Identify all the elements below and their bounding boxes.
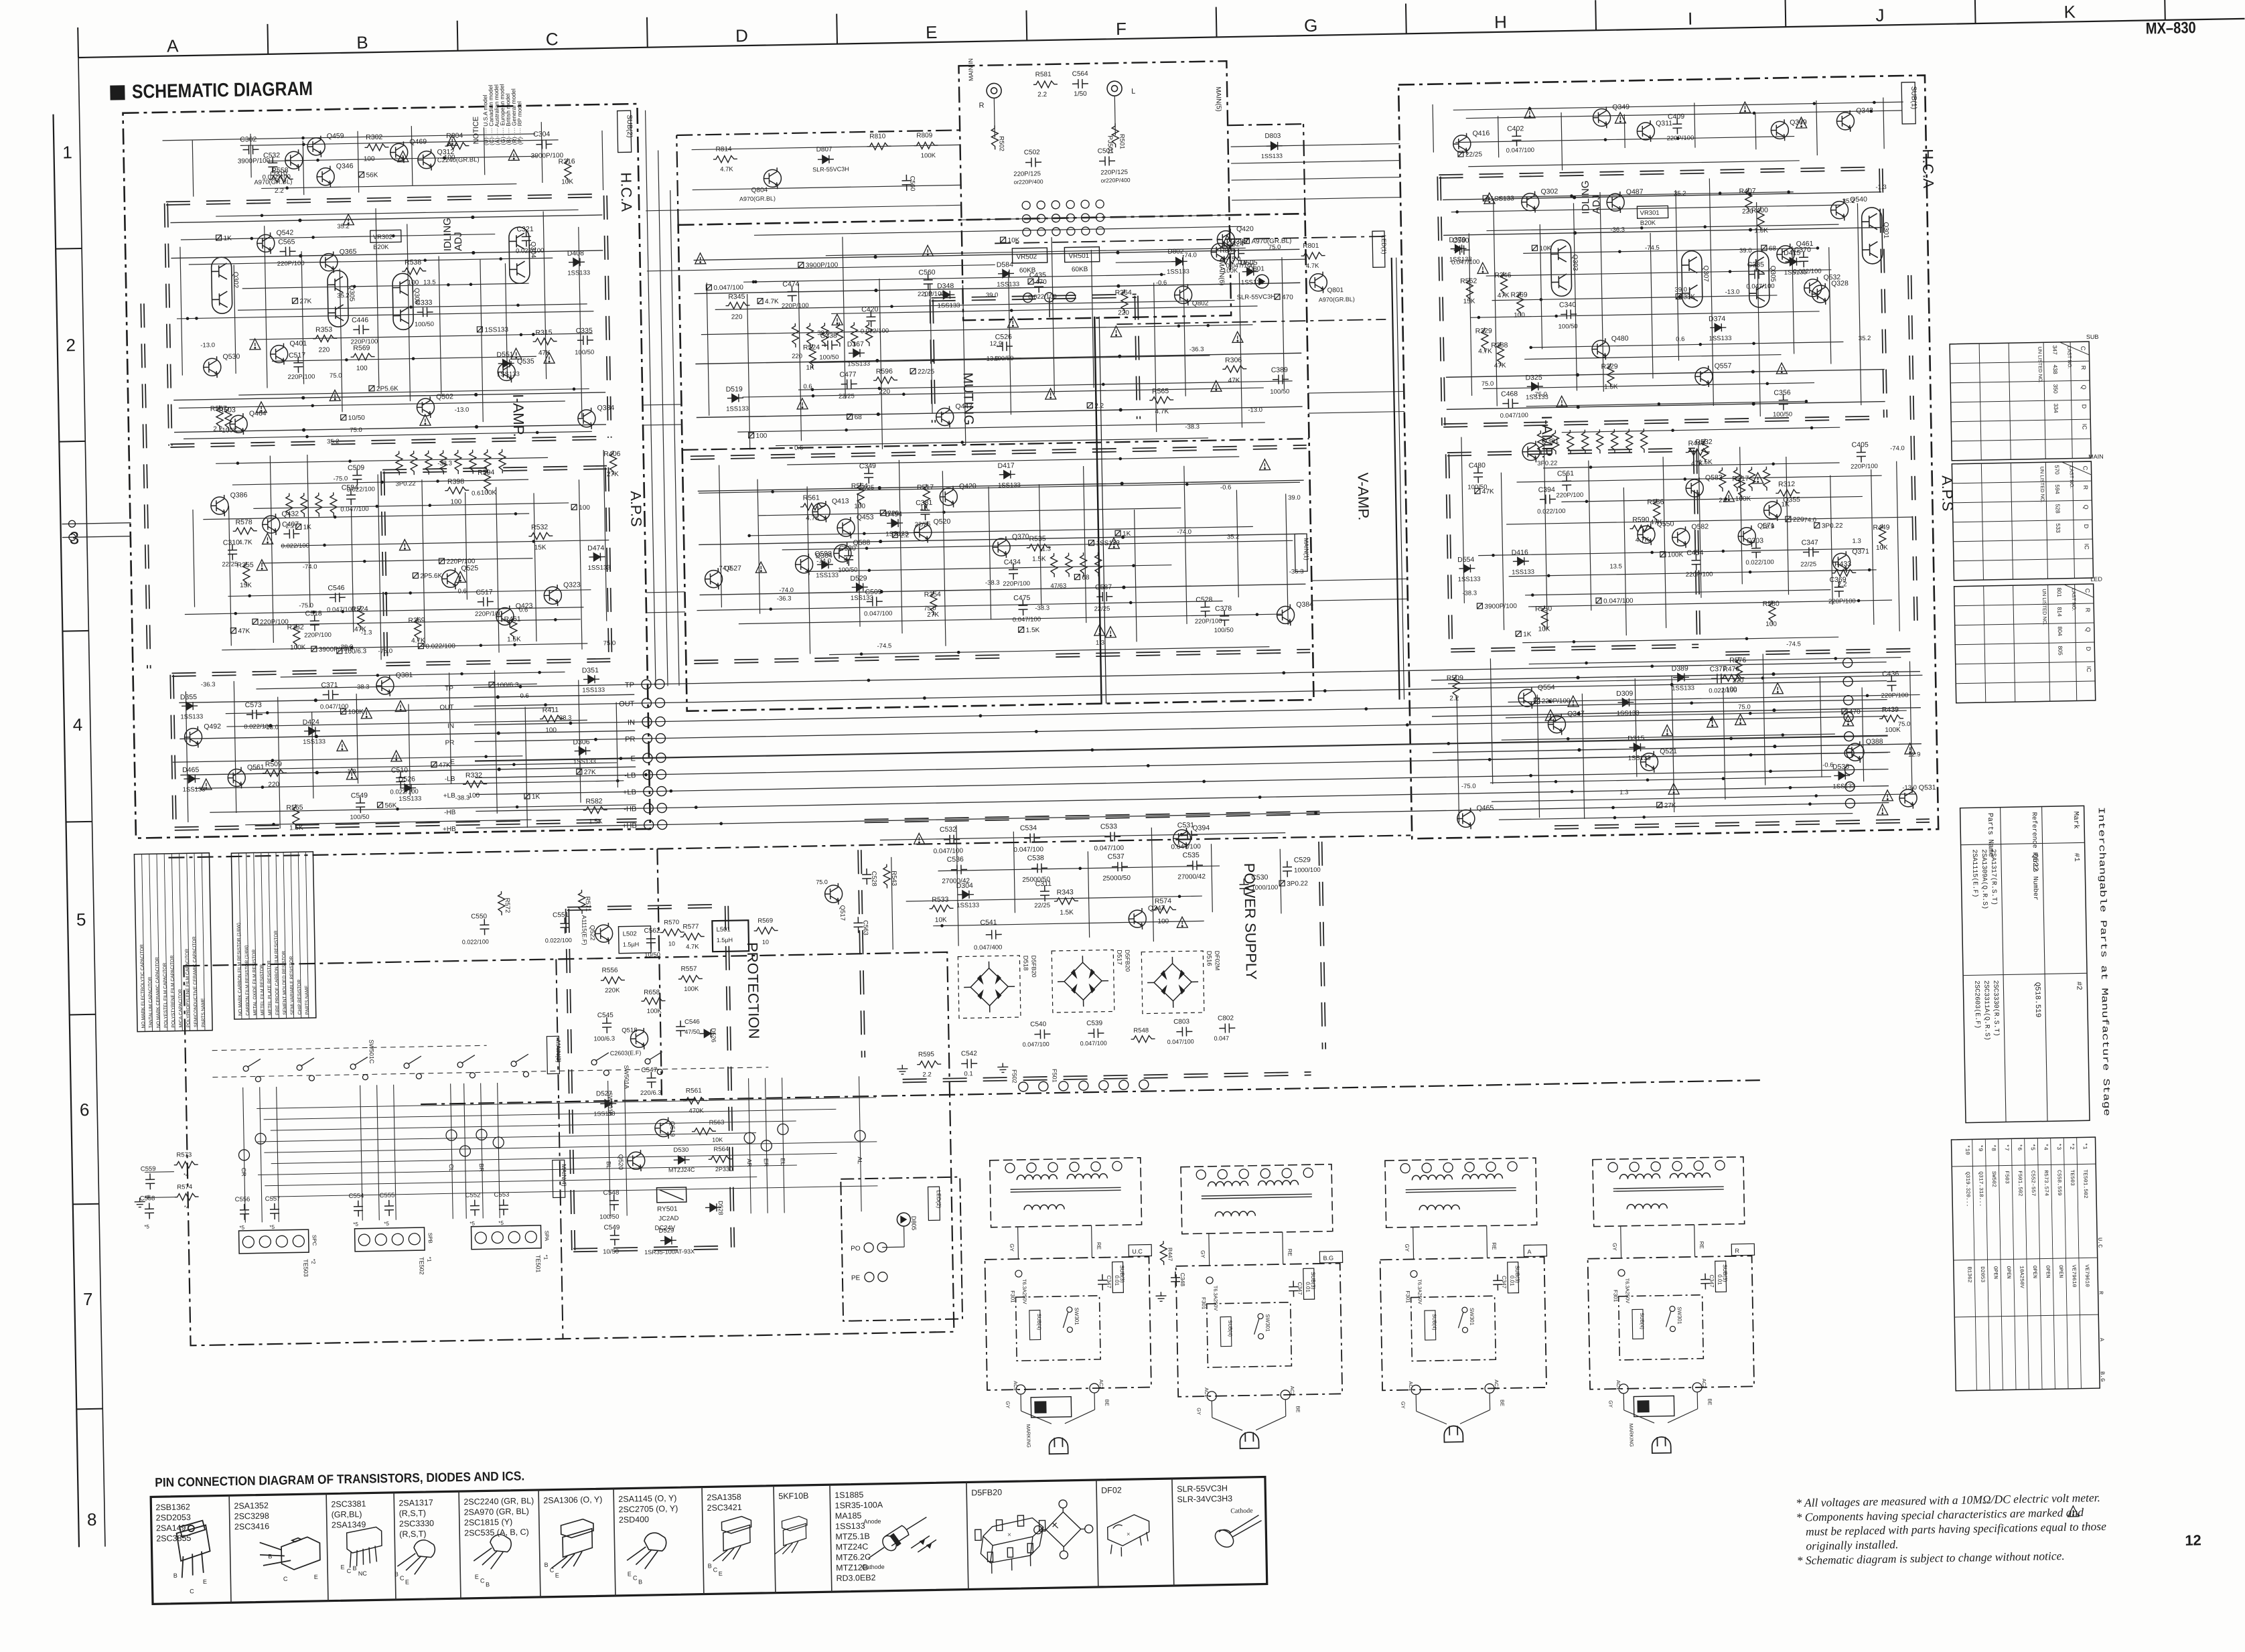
svg-text:220P/125: 220P/125 <box>1013 170 1041 178</box>
capacitor Q718 <box>1672 118 1682 134</box>
wire table diag <box>2059 342 2089 356</box>
wire <box>1492 794 1916 802</box>
wire <box>843 237 845 399</box>
wire <box>76 1408 102 1410</box>
wire rail <box>171 250 603 258</box>
wire shield-bus <box>932 294 1137 298</box>
svg-text:F301: F301 <box>1612 1290 1618 1302</box>
node connector pin <box>1022 214 1030 222</box>
transistor Q801 <box>1309 272 1327 293</box>
svg-text:-0.6: -0.6 <box>1156 279 1167 287</box>
capacitor R687 <box>323 690 339 699</box>
capacitor R860 <box>997 342 1013 351</box>
wire <box>1311 579 1407 581</box>
wire block SUB(2) border <box>123 104 650 838</box>
wire table grid <box>1955 623 2094 625</box>
wire <box>186 691 188 822</box>
wire <box>356 694 358 783</box>
node warning-mark <box>1545 710 1556 721</box>
transformer T-R core <box>1613 1187 1724 1189</box>
svg-text:220/6.3: 220/6.3 <box>640 1090 662 1098</box>
svg-text:438: 438 <box>2052 364 2059 374</box>
svg-text:*5: *5 <box>2029 1144 2036 1150</box>
svg-text:C528: C528 <box>870 871 877 887</box>
capacitor C553 <box>499 1199 508 1215</box>
svg-text:SPA: SPA <box>544 1231 550 1242</box>
connector TE502 <box>355 1227 425 1252</box>
svg-text:Q480: Q480 <box>1611 335 1629 343</box>
node bus pin +LB right <box>1844 765 1854 775</box>
wire <box>579 227 582 418</box>
svg-text:10K: 10K <box>1539 245 1551 252</box>
svg-text:2SC3416: 2SC3416 <box>234 1521 269 1531</box>
wire <box>216 457 548 463</box>
switch SW301 A <box>1462 1307 1467 1312</box>
wire legend grid <box>142 854 145 1031</box>
wire rail <box>699 534 1305 544</box>
svg-text:100: 100 <box>1765 621 1777 628</box>
wire rail <box>1443 192 1881 200</box>
svg-text:R550: R550 <box>1535 605 1552 613</box>
svg-text:-74.0: -74.0 <box>1890 445 1905 452</box>
svg-text:25000/50: 25000/50 <box>1102 875 1131 883</box>
svg-text:Q571: Q571 <box>1757 522 1775 530</box>
node warning-mark <box>544 352 555 363</box>
svg-text:1.5K: 1.5K <box>1032 555 1046 562</box>
svg-text:GY: GY <box>1005 1401 1011 1408</box>
svg-text:-1.3: -1.3 <box>1875 183 1887 191</box>
svg-text:+LB: +LB <box>623 788 636 796</box>
svg-text:27K: 27K <box>927 611 939 619</box>
svg-text:C532: C532 <box>940 826 956 834</box>
resistor C739 <box>1757 207 1765 231</box>
wire <box>481 1083 484 1218</box>
wire <box>1672 676 1674 812</box>
transformer T-B.G core <box>1202 1194 1312 1196</box>
svg-text:*4: *4 <box>2042 1143 2049 1150</box>
node bus junction <box>544 703 547 706</box>
svg-text:AC2: AC2 <box>1494 1379 1500 1390</box>
svg-text:35.2: 35.2 <box>337 292 350 299</box>
wire table grid <box>2045 462 2047 579</box>
svg-text:2.2: 2.2 <box>922 1071 931 1078</box>
wire legend grid <box>202 853 205 1031</box>
capacitor C536 <box>951 865 967 874</box>
wire shield-bus <box>566 909 572 1250</box>
wire <box>1184 466 1187 624</box>
transistor Q300 <box>795 554 813 575</box>
svg-text:0.022/100: 0.022/100 <box>1709 687 1737 695</box>
wire <box>1239 273 1242 428</box>
transistor R891 <box>834 542 852 564</box>
svg-text:47K: 47K <box>1650 519 1662 526</box>
node warning-mark <box>262 533 273 544</box>
capacitor R603 <box>268 157 277 173</box>
resistor R302 <box>364 144 388 151</box>
svg-text:C: C <box>2082 466 2088 471</box>
node warning-mark <box>508 149 519 160</box>
svg-text:Q522: Q522 <box>2031 854 2039 872</box>
svg-text:4.7K: 4.7K <box>1306 262 1319 270</box>
wire table grid <box>1981 463 1983 580</box>
switch SW501A <box>404 1063 409 1068</box>
svg-text:R556: R556 <box>602 967 619 974</box>
node connector pin <box>1023 293 1033 302</box>
svg-text:2SC2603(E.F): 2SC2603(E.F) <box>1972 980 1981 1029</box>
svg-text:0.022/100: 0.022/100 <box>281 542 309 550</box>
node T-R pin <box>1651 1162 1660 1171</box>
wire shielded pair right <box>1396 258 1404 700</box>
svg-text:D: D <box>2081 404 2088 409</box>
svg-text:Q386: Q386 <box>230 491 248 499</box>
svg-text:TP: TP <box>625 681 634 689</box>
transistor C643 <box>578 408 596 429</box>
transistor R723 <box>1777 244 1795 265</box>
svg-text:0.022/100: 0.022/100 <box>425 643 455 651</box>
svg-text:804: 804 <box>2057 626 2063 636</box>
wire <box>906 896 1202 901</box>
svg-text:-13.0: -13.0 <box>1725 289 1740 296</box>
wire <box>1286 494 1289 625</box>
svg-text:T6.3A250V: T6.3A250V <box>1212 1286 1219 1311</box>
wire <box>496 487 499 652</box>
capacitor C347 U.C <box>1098 1274 1107 1290</box>
node switch matrix pin <box>778 1124 788 1134</box>
resistor R805 <box>1218 257 1242 265</box>
svg-text:Q: Q <box>2082 505 2089 510</box>
wire <box>829 647 1269 655</box>
capacitor C530 <box>1239 879 1248 895</box>
svg-text:VR501: VR501 <box>1068 252 1089 260</box>
node interchangeable parts table <box>1960 806 2090 1122</box>
svg-text:2.2: 2.2 <box>275 187 285 195</box>
svg-text:R543: R543 <box>890 871 897 886</box>
capacitor C623 <box>293 357 303 373</box>
resistor R581 <box>1033 81 1058 88</box>
wire <box>1020 1394 1021 1411</box>
capacitor C557 <box>270 1203 279 1219</box>
resistor R809 <box>914 142 938 149</box>
wire <box>1231 161 1400 164</box>
wire <box>1211 1401 1212 1418</box>
svg-text:NOTICE: NOTICE <box>472 117 481 145</box>
capacitor R826 <box>1273 374 1289 384</box>
node connector pin F50x <box>1019 1082 1028 1092</box>
wire table diag <box>2064 584 2094 598</box>
wire <box>743 275 1165 282</box>
resistor D768 <box>1653 499 1660 523</box>
svg-text:TE501.502: TE501.502 <box>2082 1169 2088 1199</box>
svg-text:D: D <box>2083 524 2090 529</box>
svg-text:Q346: Q346 <box>336 162 354 170</box>
svg-text:22/25: 22/25 <box>918 368 935 376</box>
wire <box>831 306 1257 313</box>
wire <box>195 781 624 789</box>
wire <box>766 1078 768 1213</box>
wire block SUB(1) border <box>1398 75 1938 838</box>
svg-text:BL: BL <box>605 1161 612 1169</box>
svg-text:C584: C584 <box>342 483 358 492</box>
node R862 <box>798 262 804 267</box>
svg-text:1SS133: 1SS133 <box>998 481 1021 490</box>
wire <box>192 141 194 197</box>
wire <box>1017 1227 1019 1259</box>
wire table grid <box>1951 419 2090 422</box>
svg-text:CHIP RESISTOR: CHIP RESISTOR <box>297 980 303 1015</box>
svg-text:220: 220 <box>319 346 330 354</box>
node switch matrix pin <box>761 1140 772 1151</box>
svg-text:1SS133: 1SS133 <box>183 786 206 794</box>
svg-text:MARKING: MARKING <box>1025 1424 1032 1448</box>
wire rail <box>695 353 1301 364</box>
capacitor R813 <box>1711 674 1727 683</box>
resistor Q612 <box>351 354 375 361</box>
svg-text:220P/100: 220P/100 <box>1003 580 1030 588</box>
capacitor C347 B.G <box>1289 1281 1298 1297</box>
wire <box>1830 475 1832 605</box>
svg-text:100/50: 100/50 <box>599 1213 619 1221</box>
node bus junction <box>1323 689 1327 692</box>
svg-text:100K: 100K <box>481 489 497 496</box>
svg-text:Q423: Q423 <box>516 602 533 610</box>
resistor R360 <box>1051 553 1058 577</box>
svg-text:SW501C: SW501C <box>368 1039 375 1064</box>
wire <box>1501 473 1504 630</box>
svg-text:C539: C539 <box>1086 1020 1103 1027</box>
transistor Q708 <box>376 675 394 696</box>
svg-text:C: C <box>2080 346 2086 351</box>
svg-text:C335: C335 <box>576 327 593 335</box>
node R SUB(4) tag <box>1632 1309 1644 1339</box>
svg-text:R567: R567 <box>210 404 227 412</box>
node SUB(1) tag <box>1901 82 1915 124</box>
svg-text:SW301: SW301 <box>1676 1306 1682 1325</box>
svg-text:IC: IC <box>2086 666 2092 673</box>
svg-text:Q388: Q388 <box>1866 737 1883 745</box>
svg-text:F: F <box>1116 19 1127 39</box>
svg-text:MAIN(1): MAIN(1) <box>1303 538 1310 560</box>
resistor Q701 <box>583 806 607 814</box>
svg-text:100: 100 <box>545 727 557 734</box>
wire shield-bus <box>573 1246 733 1248</box>
node R697 <box>577 769 582 774</box>
wire <box>747 294 750 449</box>
svg-text:2.2: 2.2 <box>1037 91 1047 98</box>
svg-text:47K: 47K <box>439 761 451 769</box>
node starred row *2 <box>2077 1138 2082 1389</box>
ground <box>997 1063 1008 1072</box>
node T-R pin <box>1608 1162 1617 1172</box>
svg-text:100K: 100K <box>921 152 936 159</box>
svg-text:GY: GY <box>1196 1408 1202 1415</box>
capacitor C545 <box>602 1017 611 1033</box>
wire <box>1451 205 1841 212</box>
capacitor R764 <box>1562 475 1571 491</box>
node bus pin PR <box>642 734 652 743</box>
node speaker terminal <box>68 520 75 527</box>
resistor R310 <box>929 905 953 912</box>
svg-text:D805: D805 <box>910 1216 917 1231</box>
svg-text:B: B <box>173 1572 177 1579</box>
node warning-mark <box>1259 459 1270 470</box>
svg-text:GY: GY <box>1607 1400 1613 1408</box>
node bus junction <box>1789 786 1792 790</box>
wire rail <box>1431 672 1920 680</box>
wire <box>1433 104 1433 153</box>
wire <box>1623 487 1626 635</box>
node switch matrix pin <box>238 1150 249 1160</box>
svg-text:47/50: 47/50 <box>684 1029 700 1035</box>
svg-text:C446: C446 <box>352 316 368 324</box>
wire <box>1694 102 1695 147</box>
svg-text:2P5.6K: 2P5.6K <box>376 385 399 393</box>
wire <box>245 820 531 825</box>
wire table grid <box>1953 520 2092 522</box>
resistor R501 <box>1112 123 1119 147</box>
wire shield-bus <box>382 466 607 470</box>
resistor R767 <box>1738 475 1745 500</box>
node table LED <box>1954 584 2096 703</box>
svg-text:*10: *10 <box>1964 1144 1970 1154</box>
node T-U.C pin <box>1005 1163 1015 1173</box>
svg-text:Q317.318...: Q317.318... <box>1977 1171 1984 1207</box>
wire shielded-input <box>1094 317 1101 704</box>
svg-text:R411: R411 <box>542 706 559 714</box>
svg-text:C405: C405 <box>1852 441 1869 449</box>
svg-text:100/50: 100/50 <box>415 321 434 329</box>
potentiometer VR502 <box>1012 248 1047 263</box>
svg-text:220P/125: 220P/125 <box>1100 169 1128 177</box>
diode D528 <box>705 1203 721 1211</box>
node bus pin OUT <box>642 698 651 708</box>
wire A SUB(4) border <box>1411 1296 1496 1361</box>
svg-text:Cathode: Cathode <box>862 1564 885 1571</box>
node bus junction <box>1035 730 1038 733</box>
svg-text:33K: 33K <box>1683 293 1695 301</box>
svg-text:805: 805 <box>2057 646 2063 656</box>
svg-text:R364: R364 <box>1115 289 1132 297</box>
svg-text:-74.0: -74.0 <box>303 563 317 571</box>
svg-text:Q: Q <box>2085 627 2092 632</box>
wire <box>693 185 960 190</box>
wire cell divider <box>966 1483 968 1590</box>
wire <box>358 131 359 193</box>
wire cell divider <box>613 1489 615 1596</box>
capacitor C540 <box>1034 1029 1050 1039</box>
svg-text:100/50: 100/50 <box>575 349 594 357</box>
resistor R850 <box>873 376 897 384</box>
svg-text:MAIN(5): MAIN(5) <box>1214 86 1222 111</box>
wire <box>1088 851 1089 937</box>
svg-text:VE79610: VE79610 <box>2084 1264 2090 1287</box>
wire <box>264 1109 837 1119</box>
svg-text:Q532: Q532 <box>1823 273 1840 281</box>
transistor D639 <box>417 396 435 418</box>
node warning-mark <box>250 339 261 350</box>
svg-text:C561: C561 <box>1557 469 1574 477</box>
capacitor R621 <box>417 307 433 317</box>
svg-text:AC1: AC1 <box>1408 1381 1414 1391</box>
svg-text:Q465: Q465 <box>1476 804 1494 812</box>
resistor D761 <box>1702 439 1709 463</box>
svg-text:C509: C509 <box>348 464 364 472</box>
svg-text:Q521: Q521 <box>1660 747 1677 755</box>
resistor R363 <box>836 323 843 347</box>
node connector pin F50x <box>1059 1081 1068 1091</box>
svg-text:RD3.0EB2: RD3.0EB2 <box>836 1573 875 1583</box>
wire table grid <box>1953 539 2092 542</box>
node connector pin <box>1096 214 1104 222</box>
wire shield-bus <box>1437 177 1442 426</box>
svg-text:RE: RE <box>1096 1242 1102 1250</box>
svg-text:39.0: 39.0 <box>1674 286 1687 293</box>
node C811 <box>1657 802 1662 808</box>
svg-text:100/50: 100/50 <box>838 567 857 575</box>
svg-text:RY501: RY501 <box>657 1205 678 1213</box>
svg-text:100K: 100K <box>348 708 364 716</box>
svg-text:B: B <box>544 1562 548 1568</box>
svg-text:0.022/100: 0.022/100 <box>1745 558 1773 567</box>
resistor Q702 <box>540 715 564 723</box>
node warning-mark <box>1568 696 1579 706</box>
wire <box>1091 1225 1093 1258</box>
svg-text:C: C <box>2084 589 2091 593</box>
wire <box>859 1076 862 1211</box>
svg-text:TE503: TE503 <box>302 1259 309 1277</box>
node C758 <box>1660 552 1666 557</box>
svg-text:C530: C530 <box>1251 873 1268 881</box>
svg-text:100/50: 100/50 <box>819 354 839 362</box>
svg-text:2SC3330: 2SC3330 <box>399 1519 434 1529</box>
resistor C729 <box>1466 278 1473 302</box>
svg-text:C321: C321 <box>516 225 533 233</box>
svg-text:15K: 15K <box>1463 298 1475 305</box>
wire <box>409 704 410 796</box>
svg-text:5KF10B: 5KF10B <box>778 1491 808 1501</box>
svg-text:A: A <box>1527 1248 1531 1255</box>
svg-text:B20K: B20K <box>1640 220 1656 227</box>
IC package D5FB20 <box>974 1515 1046 1574</box>
wire <box>261 184 516 189</box>
node warning-mark <box>1776 363 1787 374</box>
svg-text:100: 100 <box>854 503 865 510</box>
svg-text:1.5µH: 1.5µH <box>623 941 639 948</box>
node T-B.G pin <box>1260 1169 1270 1178</box>
wire <box>1025 11 1027 41</box>
svg-text:C: C <box>713 1566 718 1573</box>
svg-text:C347: C347 <box>1709 1274 1715 1288</box>
node warning-mark <box>1177 917 1187 927</box>
svg-text:75.0: 75.0 <box>816 879 828 885</box>
svg-text:2SC2240 (GR, BL): 2SC2240 (GR, BL) <box>463 1496 534 1507</box>
transistor Q308 <box>392 273 414 330</box>
capacitor Q679 <box>346 489 356 505</box>
transistor R878 <box>914 521 932 542</box>
wire <box>2164 0 2166 20</box>
wire <box>1415 1394 1417 1411</box>
wire <box>498 1083 500 1218</box>
wire <box>1763 654 1765 785</box>
wire <box>699 482 1300 493</box>
svg-text:C560: C560 <box>908 176 916 192</box>
wire <box>228 590 591 597</box>
svg-text:-HB: -HB <box>444 809 456 816</box>
node switch matrix pin <box>855 1130 865 1141</box>
switch SW501B <box>297 1065 302 1070</box>
wire <box>903 1226 906 1247</box>
svg-text:E: E <box>631 755 636 763</box>
svg-text:27K: 27K <box>1664 802 1676 810</box>
